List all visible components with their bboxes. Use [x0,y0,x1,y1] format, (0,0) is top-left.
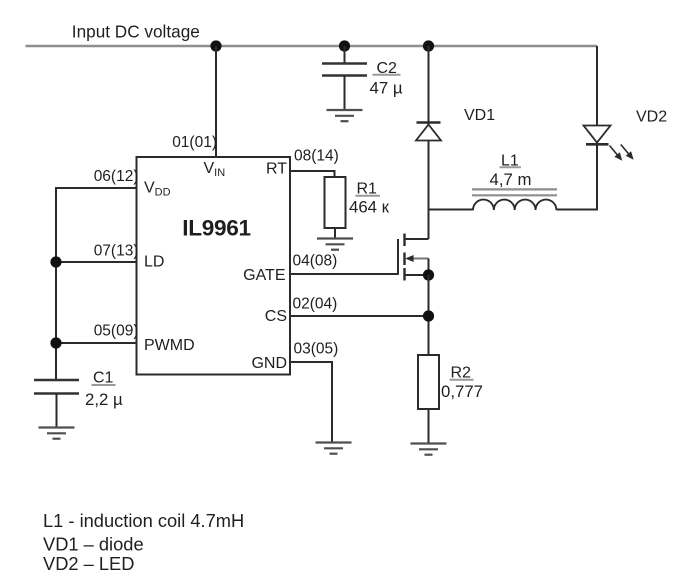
svg-text:IL9961: IL9961 [182,215,251,240]
svg-text:PWMD: PWMD [144,337,195,354]
wire: left vertical bus [55,187,57,380]
svg-text:L1 - induction coil 4.7mH: L1 - induction coil 4.7mH [43,510,244,531]
svg-text:4,7 m: 4,7 m [490,170,532,189]
wire: VD1 branch vertical [428,46,430,239]
svg-text:08(14): 08(14) [294,148,339,165]
ground (C2) [327,110,363,121]
node: PWMD junction [50,337,61,348]
svg-text:07(13): 07(13) [94,243,139,260]
node: rail junction to VIN [210,40,221,51]
wire: VD2 branch vertical [596,46,598,211]
capacitor C2 [322,64,367,76]
svg-text:05(09): 05(09) [94,323,139,340]
ground (R2) [411,444,447,455]
svg-text:LD: LD [144,254,164,271]
wire: C1 to ground [56,394,58,428]
node: MOSFET source junction [423,269,434,280]
LED VD2 emission arrows [610,145,634,161]
body diode arrow of Q1 [405,255,413,262]
svg-text:464 к: 464 к [349,198,390,217]
node: CS junction [423,310,434,321]
svg-text:2,2 µ: 2,2 µ [85,390,123,409]
svg-text:03(05): 03(05) [294,341,339,358]
svg-text:02(04): 02(04) [293,296,338,313]
svg-text:Input DC voltage: Input DC voltage [72,21,200,41]
svg-text:04(08): 04(08) [293,253,338,270]
transistor Q1 N-MOSFET [398,234,429,281]
node: LD junction [50,256,61,267]
diode VD1 [416,123,441,141]
wire: input DC voltage rail [26,45,598,47]
wire: GATE pin to MOSFET gate [290,273,398,275]
svg-text:01(01): 01(01) [172,134,217,151]
svg-text:06(12): 06(12) [94,168,139,185]
ground (C1) [39,428,75,439]
wire: LD pin to left bus [56,261,137,263]
resistor R1 [325,177,346,228]
wire: CS pin to source node [290,315,429,317]
svg-text:VD2 – LED: VD2 – LED [43,553,134,574]
gate bar [397,239,399,275]
svg-text:47 µ: 47 µ [370,79,403,98]
wire: rail to C2 [344,46,346,64]
wire: inductor tee from VD1 branch [429,209,474,211]
svg-text:GATE: GATE [243,267,285,284]
LED VD2 [584,126,611,145]
wire: C2 to ground [344,76,346,111]
svg-text:0,777: 0,777 [441,382,483,401]
svg-text:VD1 – diode: VD1 – diode [43,534,144,555]
svg-text:GND: GND [251,355,287,372]
source lead [405,274,429,276]
capacitor C1 [34,380,79,394]
inductor L1 core bars [472,189,557,195]
inductor L1 winding [473,200,556,210]
node: rail junction to C2 [339,40,350,51]
wire: RT pin to R1 [290,171,335,177]
wire: inductor to VD2 branch [556,209,597,211]
wire: VDD pin to left bus [55,187,137,189]
node: rail junction to VD1 branch [423,40,434,51]
wire: rail to VIN pin [215,46,217,158]
wire: PWMD pin to left bus [56,342,137,344]
resistor R2 [418,355,439,409]
channel segment (source) [403,268,405,281]
svg-text:RT: RT [266,160,287,177]
wire: R1 to ground [334,228,336,239]
svg-text:VD1: VD1 [464,107,495,124]
svg-text:VD2: VD2 [636,109,667,126]
ground (R1) [317,239,353,250]
IC U1 IL9961 body [137,157,291,375]
svg-text:CS: CS [265,308,287,325]
ground (GND pin) [316,443,352,454]
wire: R2 to ground [428,409,430,444]
body lead [407,258,429,260]
drain lead [405,238,429,240]
channel segment (body) [403,253,405,266]
wire: source down to CS node [428,275,430,355]
channel segment (drain) [403,234,405,247]
wire: GND pin to ground [290,362,332,443]
